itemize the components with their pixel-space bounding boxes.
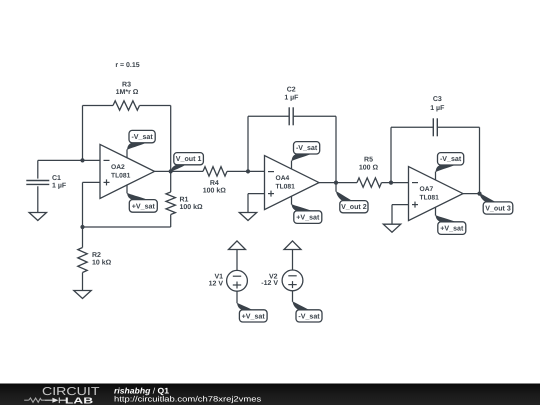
svg-text:12 V: 12 V — [209, 280, 224, 287]
svg-text:100 kΩ: 100 kΩ — [203, 187, 227, 195]
net flag +V_sat at V1 — [239, 310, 267, 322]
svg-text:TL081: TL081 — [420, 195, 440, 202]
wire: R3 right lead — [140, 105, 171, 107]
wire: R5 to OA7 inverting input — [382, 182, 409, 184]
wire: OA7 + input to ground — [392, 204, 409, 206]
svg-text:1 µF: 1 µF — [284, 94, 299, 101]
net flag V_out 2 — [335, 183, 337, 192]
power flag above V1 — [229, 241, 246, 250]
svg-text:+V_sat: +V_sat — [242, 312, 266, 320]
node V_out 1: OA2 output junction — [155, 170, 171, 172]
voltage source V1 12 V — [227, 270, 248, 291]
OA7 V- pin stub to +V_sat flag — [435, 207, 437, 215]
ground at OA4 + input — [239, 213, 256, 221]
svg-text:http://circuitlab.com/ch78xrej: http://circuitlab.com/ch78xrej2vmes — [114, 395, 261, 404]
svg-text:OA2: OA2 — [111, 164, 125, 171]
op-amp OA4 TL081 — [265, 156, 320, 210]
voltage source V2 -12 V — [282, 270, 303, 291]
capacitor C1 — [37, 160, 39, 178]
resistor R5 — [357, 178, 382, 187]
wire: R1 top lead — [170, 171, 172, 192]
wire: feedback right leg down to output node — [170, 106, 172, 172]
ground under R2 — [74, 291, 91, 299]
svg-text:V_out 2: V_out 2 — [341, 203, 367, 211]
wire: bottom feedback — [83, 226, 171, 228]
wire: OA4 + input to ground — [248, 193, 265, 195]
OA4 V- pin stub to +V_sat flag — [291, 196, 293, 204]
svg-text:10 kΩ: 10 kΩ — [92, 259, 112, 267]
op-amp OA2 TL081 — [100, 144, 155, 198]
svg-text:R5: R5 — [364, 157, 373, 164]
svg-text:r = 0.15: r = 0.15 — [115, 62, 139, 69]
svg-text:+V_sat: +V_sat — [132, 202, 156, 210]
wire: flag to V2 — [292, 250, 294, 271]
svg-text:R1: R1 — [180, 197, 189, 204]
OA7 V+ pin stub to -V_sat flag — [435, 172, 437, 180]
wire: R2 top lead — [82, 227, 84, 248]
svg-text:1 µF: 1 µF — [430, 105, 445, 112]
svg-text:TL081: TL081 — [276, 184, 296, 191]
wire: feedback left leg up to R3 — [82, 106, 84, 161]
svg-text:LAB: LAB — [65, 396, 93, 405]
svg-text:V_out 3: V_out 3 — [485, 204, 511, 212]
svg-text:TL081: TL081 — [111, 172, 131, 179]
svg-text:1M*r Ω: 1M*r Ω — [116, 89, 139, 96]
svg-text:R2: R2 — [92, 252, 101, 259]
wire: V2 to -V_sat flag — [292, 291, 294, 302]
wire: V1 to +V_sat flag — [236, 291, 238, 303]
wire: R3 left lead — [83, 105, 114, 107]
capacitor C3 feedback — [390, 127, 392, 182]
svg-text:-V_sat: -V_sat — [440, 155, 462, 163]
wire: flag to V1 — [236, 250, 238, 271]
capacitor C2 feedback — [247, 116, 249, 171]
wire: C1 to OA2 inverting input — [38, 159, 100, 161]
wire: OA2 + input to bottom node — [83, 181, 101, 183]
svg-text:C3: C3 — [433, 96, 442, 103]
node V_out 3: OA7 output junction — [463, 193, 480, 195]
svg-text:C1: C1 — [52, 175, 61, 182]
ground at OA7 + input — [383, 224, 400, 232]
net flag V_out 3 — [480, 193, 497, 202]
svg-text:R3: R3 — [122, 82, 131, 89]
svg-text:-V_sat: -V_sat — [131, 133, 153, 141]
svg-text:+V_sat: +V_sat — [440, 225, 464, 233]
wire: output to R4 — [171, 170, 203, 172]
op-amp OA7 TL081 — [409, 167, 464, 221]
resistor R3 — [113, 101, 140, 110]
svg-text:R4: R4 — [210, 180, 219, 187]
resistor R2 — [78, 248, 87, 273]
node V_out 2: OA4 output junction — [319, 182, 336, 184]
svg-text:100 Ω: 100 Ω — [359, 165, 379, 172]
svg-text:OA4: OA4 — [276, 175, 290, 182]
OA4 V+ pin stub to -V_sat flag — [291, 161, 293, 169]
node D: junction R5/C3/OA7- — [389, 181, 393, 185]
svg-text:-12 V: -12 V — [261, 280, 278, 287]
node C: junction R4/C2/OA4- — [246, 169, 250, 173]
resistor R1 — [166, 192, 175, 215]
svg-text:OA7: OA7 — [420, 186, 434, 193]
wire: R2 bottom lead — [82, 273, 84, 291]
OA2 V- pin stub to +V_sat flag — [126, 185, 128, 193]
svg-text:+V_sat: +V_sat — [296, 214, 320, 222]
ground under C1 — [29, 213, 46, 221]
net flag -V_sat at V2 — [296, 310, 322, 322]
node B: junction R1/R2/OA2+ — [80, 225, 84, 229]
svg-text:100 kΩ: 100 kΩ — [180, 203, 204, 211]
CircuitLab logo wire-resistor-diode glyph — [24, 398, 45, 402]
svg-text:1 µF: 1 µF — [52, 183, 67, 190]
net flag V_out 1 — [171, 164, 187, 172]
svg-text:V_out 1: V_out 1 — [176, 155, 202, 163]
wire: OA4 output to R5 — [336, 182, 357, 184]
power flag above V2 — [284, 241, 301, 250]
resistor R4 — [203, 167, 227, 176]
svg-text:-V_sat: -V_sat — [298, 312, 320, 320]
node A: junction C1/R3/OA2- — [80, 158, 84, 162]
OA2 V+ pin stub to -V_sat flag — [126, 149, 128, 157]
wire: R4 to OA4 inverting input — [227, 170, 265, 172]
svg-text:-V_sat: -V_sat — [296, 144, 318, 152]
svg-text:C2: C2 — [287, 87, 296, 94]
